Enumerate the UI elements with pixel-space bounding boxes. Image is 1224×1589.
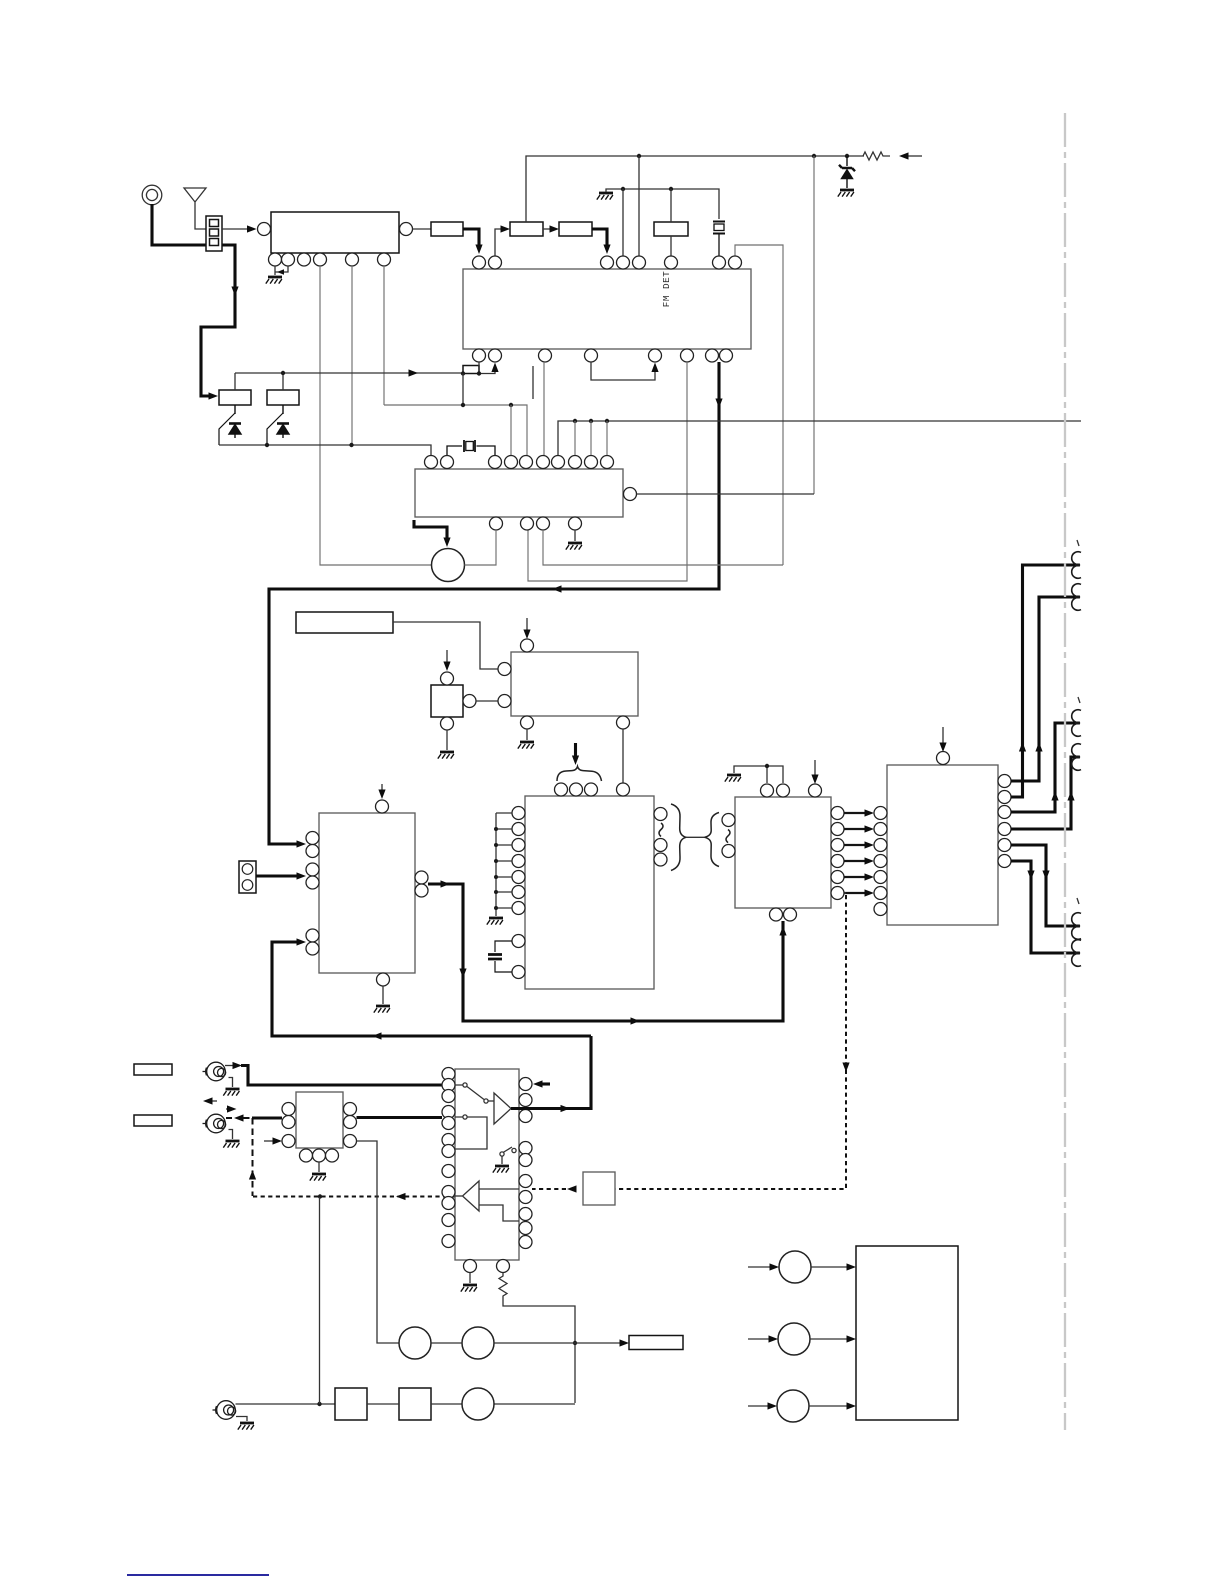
P3 arrows: [748, 1405, 768, 1407]
footer blue rule: [127, 1574, 269, 1576]
arrow up into AM IC: [779, 926, 786, 936]
wire pin495 up to filter row: [495, 229, 502, 256]
arrow into FL3: [550, 225, 560, 232]
squiggle IC7 left: [726, 830, 730, 843]
IC4 pins: [521, 639, 534, 652]
rung junction dots: [494, 827, 498, 910]
amp2 output to pin: [455, 1195, 462, 1197]
display drive rectangle R2: [296, 612, 393, 633]
wire B1 pin3 to bottom chain: [357, 1141, 400, 1343]
wire out5 to conn5: [1011, 845, 1079, 926]
discriminator box T1: [654, 222, 688, 236]
arrow down: [459, 969, 466, 979]
wire U3 out to B+ rail riser: [637, 493, 815, 495]
wire IC4 to MPX top pin: [622, 729, 624, 783]
wire pin352 to varactor rail: [351, 266, 353, 445]
P1 arrows: [748, 1266, 770, 1268]
dotted mute bus to amp out: [253, 1196, 455, 1198]
IC5 top pin: [376, 800, 389, 813]
IC5 left pins: [306, 832, 319, 956]
junction dot on monitor line: [573, 1341, 577, 1345]
data bus rail y421: [558, 421, 1081, 455]
filter FL2: [510, 222, 543, 236]
varactor tune rail: [235, 372, 463, 374]
J3 gnd: [236, 1417, 247, 1422]
resistor R1: [863, 152, 890, 160]
wire pin384 to pll rail: [383, 266, 385, 405]
row1 rect R4: [629, 1336, 683, 1350]
arrow glyph in (right): [226, 1108, 228, 1110]
cable link wire: [686, 836, 705, 838]
arrow stub into B2 right pin1: [541, 1082, 550, 1085]
arrow stub IC7 top: [814, 760, 816, 776]
switch2 inside: [500, 1147, 516, 1164]
B1 gnd: [318, 1162, 320, 1172]
connector block (antenna terminal): [206, 216, 222, 251]
wire out6 to conn6: [1011, 861, 1079, 953]
amp1 triangle: [494, 1093, 511, 1124]
wire CN2 to IC5: [256, 874, 300, 877]
thick B1 out to switch: [357, 1116, 443, 1119]
IC4 (system control): [511, 652, 638, 716]
cable brace left of IC7: [705, 813, 720, 867]
wires bus to pins: [575, 421, 607, 455]
PS circle P2: [778, 1323, 810, 1355]
wire U1 out to filter: [413, 228, 432, 230]
wire pin735 loop to PLL: [735, 245, 783, 565]
label box L1: [134, 1064, 172, 1075]
B1 left pins: [282, 1103, 295, 1116]
arrow into IC5: [297, 872, 307, 879]
wire out1 to conn2: [1011, 597, 1079, 781]
IC6 left pins: [512, 807, 525, 979]
switch1 contacts: [455, 1083, 494, 1103]
wire U1 gnd pins: [275, 266, 288, 275]
J1 gnd: [229, 1078, 233, 1088]
amp2 triangle (left): [463, 1181, 480, 1211]
arrow down on MPX out: [715, 399, 722, 409]
FM IF / DET IC U2: [463, 269, 751, 349]
PS box B3: [856, 1246, 958, 1420]
svg-text:FM DET: FM DET: [661, 271, 672, 307]
IC7 top pins: [761, 784, 822, 797]
wire block to front-end input: [222, 228, 248, 230]
connector conn1: [1072, 552, 1081, 579]
ground U1: [266, 277, 282, 284]
PLL feed rail y405: [384, 405, 527, 455]
wire S5 to IC4: [476, 700, 498, 702]
IC7 left pins: [722, 814, 735, 827]
U3 top pins: [425, 456, 614, 469]
U2 meter U-link: [591, 362, 655, 380]
wire bead branch down: [462, 374, 464, 406]
wire FL3 to IF pin: [592, 229, 607, 248]
leftover text bar: [532, 366, 534, 399]
wire long vertical from rail to VCO line: [813, 156, 815, 494]
arrow right on audio out: [441, 880, 451, 887]
supply arrow stub: [574, 743, 577, 757]
wire U3 pin543 to IF loop: [543, 530, 783, 565]
U2 bottom pins: [473, 349, 733, 362]
dashed vertical to mute bus: [252, 1118, 254, 1196]
ground U3: [574, 530, 576, 541]
antenna symbol: [184, 188, 206, 229]
row1 circle M1: [399, 1327, 431, 1359]
wire out4 to conn4: [1011, 757, 1079, 829]
IC8 right pins: [998, 775, 1011, 868]
wire stub off-page: [909, 155, 923, 157]
IC6 box: [525, 796, 654, 989]
junction dots on rail: [461, 371, 465, 375]
ladder bus with rungs: [496, 813, 512, 916]
ground ladder: [487, 918, 503, 925]
antenna jack (AM) double circle: [142, 185, 162, 205]
wire tune input stub: [414, 520, 447, 542]
IC5 bottom pin: [377, 973, 390, 986]
zener diode D1: [839, 156, 855, 188]
small arrow on gnd jog: [277, 269, 284, 275]
varactor box BV1: [219, 390, 251, 405]
B1 right pins: [344, 1103, 357, 1116]
arrow glyph out (left): [209, 1100, 217, 1102]
arrow into front-end pin: [247, 225, 257, 232]
brace over supply pins: [557, 767, 602, 782]
IC5 tall box: [319, 813, 415, 973]
arrow stub IC5 top: [381, 784, 383, 792]
wire U3 pin496 to circle: [465, 530, 497, 565]
wire T1 top: [670, 189, 672, 222]
jack J1: [203, 1062, 226, 1081]
PS circle P3: [777, 1390, 809, 1422]
tick above conn3: [1078, 697, 1080, 703]
B2 right pins: [519, 1078, 532, 1249]
junction dots: [461, 403, 465, 407]
arrow from off-page (left point): [899, 152, 909, 159]
IC8 left pins: [874, 807, 887, 916]
row1 circle M2: [462, 1327, 494, 1359]
U3 output pin right: [624, 488, 637, 501]
U1 bottom pins: [269, 253, 391, 266]
arrow into tuning circle: [443, 538, 450, 548]
IC5 gnd: [382, 986, 384, 1004]
IC7 box: [735, 797, 831, 908]
junction dots: [265, 443, 269, 447]
junction dots: [573, 419, 577, 423]
tick above conn1: [1077, 540, 1079, 546]
wire pin687 SD line: [528, 362, 687, 581]
mute box B4: [583, 1172, 615, 1205]
arrow on tune rail: [409, 369, 419, 376]
wire T1 bottom: [670, 236, 672, 256]
wire monitor return thick: [272, 942, 591, 1036]
arrow into IC5 low pins: [297, 938, 307, 945]
IC8 top pin: [937, 752, 950, 765]
arrow into FL2: [501, 225, 511, 232]
IC4 gnd: [526, 729, 528, 740]
crystal X1: [447, 440, 495, 455]
switch1 lower input: [455, 1115, 487, 1149]
wire to pin511: [510, 405, 512, 455]
arrow stub into IC4 top: [526, 618, 528, 631]
junction dot: [281, 371, 285, 375]
B1 bottom pins: [300, 1149, 313, 1162]
wire out2 to conn1: [1011, 565, 1079, 797]
amp2 inputs: [479, 1189, 519, 1221]
B2 bottom pins: [464, 1260, 477, 1273]
jack J2: [203, 1114, 226, 1133]
arrow down into pin: [475, 245, 482, 255]
resistor R3 vertical: [499, 1273, 575, 1404]
wire pin479 down to bead: [478, 362, 480, 366]
crystal X3: [713, 222, 725, 257]
wire pin320 tuning line (long grey): [320, 266, 431, 565]
dashed J2 record line: [226, 1117, 232, 1119]
crystal X2: [488, 941, 512, 972]
junction dots: [621, 187, 625, 191]
page boundary dash-dot line: [1064, 113, 1066, 1430]
P2 arrows: [748, 1338, 769, 1340]
arrow right on bottom run: [631, 1017, 641, 1024]
B2 left pins: [442, 1068, 455, 1248]
ground D1: [838, 190, 854, 197]
U2 top pins: [473, 256, 742, 269]
ground IF top: [597, 193, 613, 200]
wire FL2-FL3: [543, 228, 551, 230]
U2 IF count down: [543, 362, 545, 455]
arrow stub IC8 top: [942, 727, 944, 744]
gnd wire over IC7: [734, 766, 783, 783]
wire rail to pin639: [638, 156, 640, 256]
varactor diode D3: [267, 405, 289, 443]
wire to pin623: [622, 189, 624, 256]
thick J2 line to B1: [252, 1116, 282, 1119]
input connector CN2: [239, 861, 256, 893]
row1 wires: [431, 1342, 621, 1344]
row2 wires: [367, 1403, 575, 1405]
IC6 right pins: [654, 808, 667, 867]
wire dotted bus drop: [319, 1197, 321, 1404]
thick MPX out down: [269, 362, 719, 844]
wire R2 to IC4: [393, 622, 498, 669]
connector conn5: [1072, 913, 1081, 940]
pin U1 in: [258, 223, 271, 236]
connector conn2: [1072, 584, 1081, 611]
arrow into MPX IC: [297, 840, 307, 847]
varactor box BV2: [267, 390, 299, 405]
wire rail to pin495 (AFC): [479, 366, 495, 374]
wire antenna jack feed (thick): [152, 204, 235, 396]
xtal osc box S5: [431, 685, 463, 717]
audio out thick to AM/FM switch: [428, 884, 783, 1021]
IC7 right pins: [831, 807, 844, 900]
pin U1 out: [400, 223, 413, 236]
arrow down into pin: [603, 245, 610, 255]
PLL IC U3: [415, 469, 623, 517]
J2 gnd: [229, 1130, 233, 1140]
PS circle P1: [779, 1251, 811, 1283]
squiggle between pins: [659, 823, 663, 837]
amp1 out thick loop: [511, 1036, 591, 1109]
row2 square S6: [335, 1388, 367, 1420]
connector conn4: [1072, 744, 1081, 771]
arrow left on return: [372, 1032, 382, 1039]
U3 bottom pins: [490, 517, 582, 530]
jack J3: [213, 1401, 236, 1420]
wire gnd rail y189: [606, 189, 719, 219]
dashed mute to switch: [532, 1188, 566, 1190]
arrow on antenna feed: [231, 287, 238, 297]
connector conn3: [1072, 710, 1081, 737]
varactor diode D2: [219, 405, 241, 445]
wire FL1 to IF pin: [463, 229, 479, 248]
connector conn6: [1072, 940, 1081, 967]
arrow into varactor box: [209, 392, 219, 399]
varactor bottom rail to PLL: [219, 445, 431, 455]
tuning motor circle: [432, 549, 465, 582]
B2 gnd: [469, 1273, 471, 1284]
IC5 right pins: [415, 871, 428, 884]
bead on rail under pins: [463, 366, 479, 374]
arrow up into pin495: [491, 363, 498, 373]
wire out3 to conn3: [1011, 723, 1079, 812]
filter FL1: [431, 222, 463, 236]
wire J1 to switch IC (thick): [225, 1065, 234, 1067]
wire varactor tops to rail: [235, 373, 283, 390]
filter FL3: [559, 222, 592, 236]
arrow left on MPX out: [552, 585, 562, 592]
junction dots rail: [637, 154, 641, 158]
arrow stub into S5 top: [446, 650, 448, 663]
bus arrows IC7 to IC8: [844, 809, 874, 896]
arrow into B1 pin3: [264, 1140, 274, 1142]
tick above conn5: [1077, 898, 1079, 904]
cable brace right of IC6: [671, 804, 686, 871]
row2 circle M3: [462, 1388, 494, 1420]
IC7 bottom pins: [770, 908, 783, 921]
wire AM det to mute (dashed): [844, 892, 846, 894]
IC6 top pins: [555, 783, 630, 796]
B+ rail top: [526, 156, 864, 222]
front-end IC U1: [271, 212, 399, 253]
S5 gnd: [446, 730, 448, 750]
row2 square S7: [399, 1388, 431, 1420]
row2 wire J3 to squares: [236, 1403, 336, 1405]
S5 pins: [441, 672, 454, 685]
label box L2: [134, 1115, 172, 1126]
IC8 box: [887, 765, 998, 925]
arrow up into pin655: [651, 363, 658, 373]
